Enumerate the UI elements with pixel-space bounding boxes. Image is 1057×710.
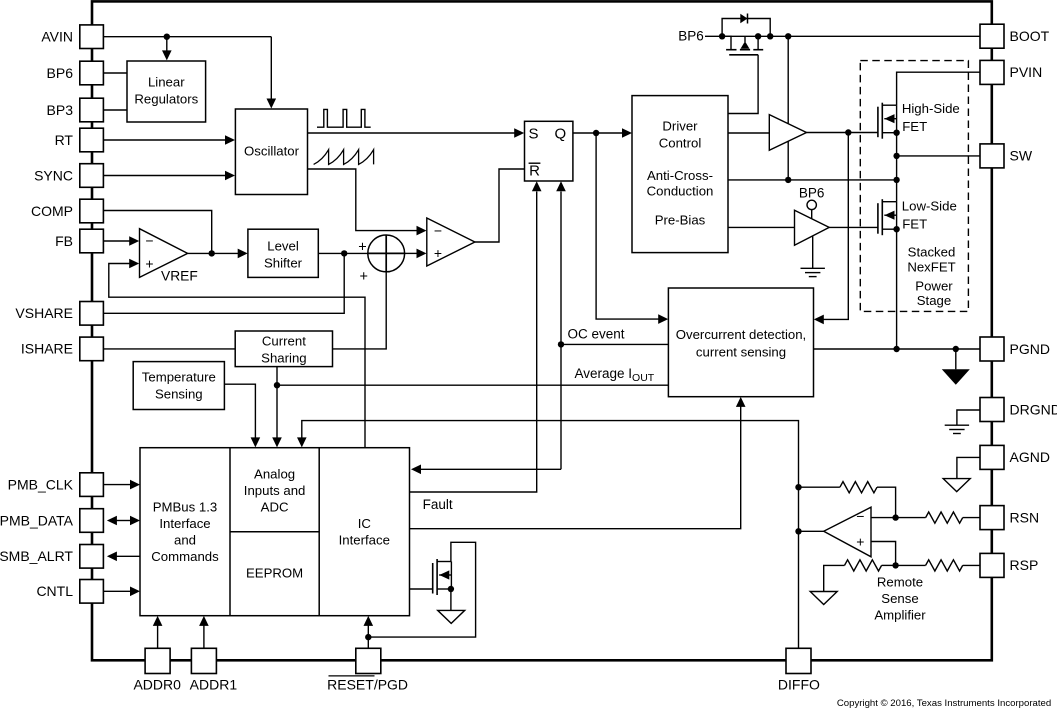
svg-text:Analog: Analog bbox=[254, 467, 295, 482]
svg-text:Current: Current bbox=[262, 334, 306, 349]
svg-text:PVIN: PVIN bbox=[1010, 64, 1043, 80]
svg-text:+: + bbox=[145, 256, 153, 272]
svg-text:RSN: RSN bbox=[1010, 509, 1040, 525]
svg-text:High-Side: High-Side bbox=[902, 101, 960, 116]
svg-text:current sensing: current sensing bbox=[696, 344, 786, 359]
svg-text:FB: FB bbox=[55, 233, 73, 249]
svg-text:ADDR0: ADDR0 bbox=[133, 677, 181, 693]
svg-text:CNTL: CNTL bbox=[36, 583, 73, 599]
svg-text:PMB_CLK: PMB_CLK bbox=[8, 476, 74, 492]
svg-text:DRGND: DRGND bbox=[1010, 401, 1057, 417]
svg-text:Conduction: Conduction bbox=[647, 183, 714, 198]
svg-text:Interface: Interface bbox=[159, 516, 210, 531]
svg-text:RESET/PGD: RESET/PGD bbox=[327, 677, 408, 693]
svg-text:BP6: BP6 bbox=[47, 65, 74, 81]
svg-text:PMB_DATA: PMB_DATA bbox=[0, 512, 74, 528]
svg-text:NexFET: NexFET bbox=[907, 259, 955, 274]
svg-text:SMB_ALRT: SMB_ALRT bbox=[0, 548, 73, 564]
svg-text:ISHARE: ISHARE bbox=[21, 341, 73, 357]
svg-text:Inputs and: Inputs and bbox=[244, 483, 306, 498]
svg-text:BP6: BP6 bbox=[799, 186, 825, 201]
svg-text:Sense: Sense bbox=[881, 591, 918, 606]
svg-text:and: and bbox=[174, 533, 196, 548]
svg-text:Fault: Fault bbox=[423, 497, 453, 512]
svg-text:Amplifier: Amplifier bbox=[874, 608, 926, 623]
svg-text:Regulators: Regulators bbox=[134, 92, 198, 107]
svg-text:Pre-Bias: Pre-Bias bbox=[655, 213, 706, 228]
svg-text:PGND: PGND bbox=[1010, 341, 1050, 357]
svg-text:BP6: BP6 bbox=[678, 29, 704, 44]
svg-text:FET: FET bbox=[902, 217, 927, 232]
svg-text:Sharing: Sharing bbox=[261, 351, 306, 366]
svg-text:Linear: Linear bbox=[148, 75, 185, 90]
svg-text:Interface: Interface bbox=[339, 532, 390, 547]
svg-text:Control: Control bbox=[659, 135, 702, 150]
svg-text:Temperature: Temperature bbox=[142, 370, 216, 385]
svg-text:Anti-Cross-: Anti-Cross- bbox=[647, 168, 713, 183]
svg-text:RT: RT bbox=[55, 132, 74, 148]
svg-text:R: R bbox=[529, 163, 540, 180]
svg-text:+: + bbox=[359, 269, 367, 285]
svg-text:Power: Power bbox=[915, 279, 953, 294]
svg-text:SYNC: SYNC bbox=[34, 167, 73, 183]
svg-text:+: + bbox=[358, 239, 366, 255]
svg-text:Average IOUT: Average IOUT bbox=[575, 366, 655, 384]
svg-text:BOOT: BOOT bbox=[1010, 28, 1050, 44]
svg-text:Shifter: Shifter bbox=[264, 256, 303, 271]
svg-text:SW: SW bbox=[1010, 148, 1033, 164]
svg-text:AGND: AGND bbox=[1010, 449, 1050, 465]
svg-text:Copyright © 2016, Texas Instru: Copyright © 2016, Texas Instruments Inco… bbox=[837, 698, 1051, 709]
svg-text:Oscillator: Oscillator bbox=[244, 144, 300, 159]
svg-text:−: − bbox=[145, 233, 153, 249]
svg-text:−: − bbox=[856, 508, 864, 524]
svg-text:+: + bbox=[434, 245, 442, 261]
svg-text:VREF: VREF bbox=[161, 268, 198, 283]
svg-text:+: + bbox=[856, 534, 864, 550]
svg-text:−: − bbox=[434, 222, 442, 238]
svg-text:IC: IC bbox=[358, 516, 372, 531]
svg-text:Low-Side: Low-Side bbox=[902, 198, 957, 213]
svg-text:EEPROM: EEPROM bbox=[246, 566, 303, 581]
svg-text:PMBus 1.3: PMBus 1.3 bbox=[153, 500, 218, 515]
svg-text:S: S bbox=[528, 126, 538, 143]
svg-text:Stage: Stage bbox=[917, 293, 951, 308]
svg-text:AVIN: AVIN bbox=[41, 29, 73, 45]
svg-text:Level: Level bbox=[267, 239, 299, 254]
svg-text:DIFFO: DIFFO bbox=[778, 677, 820, 693]
svg-text:Sensing: Sensing bbox=[155, 387, 203, 402]
svg-text:ADC: ADC bbox=[261, 500, 289, 515]
svg-text:OC event: OC event bbox=[568, 327, 625, 342]
svg-text:Remote: Remote bbox=[877, 575, 923, 590]
svg-text:ADDR1: ADDR1 bbox=[190, 677, 238, 693]
svg-text:COMP: COMP bbox=[31, 203, 73, 219]
svg-text:Driver: Driver bbox=[662, 119, 698, 134]
svg-text:BP3: BP3 bbox=[47, 102, 74, 118]
svg-text:Q: Q bbox=[554, 126, 566, 143]
svg-text:Overcurrent detection,: Overcurrent detection, bbox=[676, 327, 806, 342]
svg-text:FET: FET bbox=[902, 119, 927, 134]
svg-text:VSHARE: VSHARE bbox=[15, 305, 73, 321]
svg-text:Stacked: Stacked bbox=[908, 244, 956, 259]
svg-text:RSP: RSP bbox=[1010, 557, 1039, 573]
svg-text:Commands: Commands bbox=[151, 549, 219, 564]
